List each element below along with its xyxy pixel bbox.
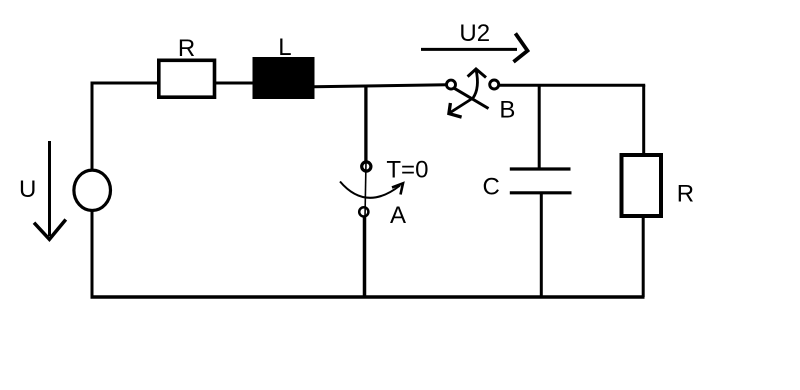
resistor R2: [622, 155, 695, 216]
svg-text:U: U: [19, 176, 36, 203]
svg-text:T=0: T=0: [386, 156, 428, 183]
label U with direction arrow: [19, 141, 66, 239]
wire from switch B to right corner: [498, 84, 645, 87]
wire capacitor branch upper: [538, 85, 541, 169]
wire capacitor branch lower: [540, 193, 543, 297]
svg-text:L: L: [278, 34, 291, 61]
label U2 with arrow: [421, 20, 528, 62]
wire top-left horizontal: [91, 82, 161, 85]
wire right vertical upper: [642, 85, 645, 159]
capacitor C1: [483, 169, 572, 200]
voltage source U1: [74, 170, 111, 210]
switch B: [447, 69, 516, 123]
resistor R1: [159, 35, 215, 97]
svg-text:C: C: [483, 173, 500, 200]
inductor L1: [253, 34, 315, 99]
svg-text:U2: U2: [459, 20, 490, 47]
wire left vertical: [91, 83, 94, 297]
wire middle branch lower: [363, 217, 367, 297]
wire right vertical lower: [642, 216, 645, 297]
wire middle branch upper: [364, 85, 367, 162]
switch A (T=0): [340, 156, 428, 229]
svg-text:A: A: [390, 202, 406, 229]
svg-text:B: B: [499, 96, 515, 123]
wire bottom horizontal: [91, 295, 645, 298]
svg-text:R: R: [178, 35, 195, 62]
svg-text:R: R: [677, 181, 694, 208]
wire between R1 and L1: [214, 82, 254, 85]
wire from L1 to switch B: [314, 85, 447, 87]
